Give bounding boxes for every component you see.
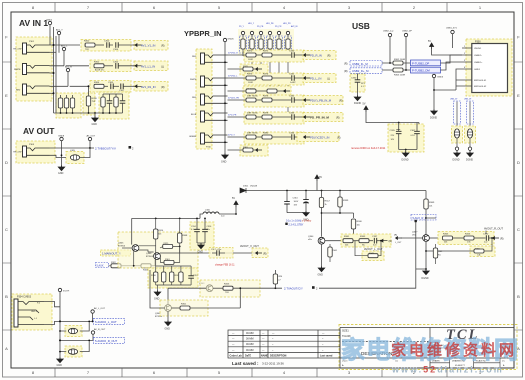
wire q300 base (150, 270, 165, 308)
frame row labels right (517, 35, 520, 352)
resistor R301 feedback (171, 287, 241, 310)
svg-text:GND: GND (154, 298, 160, 301)
highlight group C317 (209, 248, 233, 259)
capacitor C307a (119, 84, 136, 93)
svg-text:R3a7: R3a7 (325, 201, 331, 203)
resistor R313 vertical (70, 95, 74, 113)
svg-text:DGND: DGND (354, 102, 361, 105)
svg-text:PD_PR: PD_PR (275, 26, 282, 28)
wire yp row2 (228, 77, 305, 79)
svg-text:75R: 75R (85, 49, 89, 51)
jack P305 YELLOW (13, 144, 50, 157)
resistor R370 (246, 51, 256, 62)
svg-text:5.PD_Y: 5.PD_Y (228, 135, 236, 137)
jack P307 WHITE (190, 76, 228, 87)
ground q307 (416, 241, 429, 280)
resistor R374 (262, 74, 272, 81)
svg-text:C341: C341 (289, 74, 295, 76)
net label MAINOUT_R (101, 250, 131, 256)
resistor R319 vertical (179, 266, 183, 285)
highlight group P300 (466, 39, 512, 96)
wire row R out (60, 339, 93, 341)
wire tvaout to aux label (319, 221, 416, 288)
transistor Q305 (118, 243, 139, 252)
wire row1 sleeve (50, 51, 57, 53)
capacitor C316 (202, 218, 212, 243)
node rail c308 (286, 190, 288, 192)
ferrite bead L301 vertical (454, 129, 459, 147)
svg-text:GND: GND (58, 172, 64, 175)
wire mnt holes join (434, 89, 456, 91)
pullup column 5 (276, 31, 283, 56)
node AV1_R1 arrow (135, 85, 142, 88)
svg-text:(R): (R) (161, 86, 165, 89)
transistor Q306 (146, 253, 160, 260)
svg-text:C4k: C4k (477, 254, 481, 256)
svg-text:USB2_D-_M: USB2_D-_M (352, 62, 368, 66)
testpoint USB2_DM (383, 31, 393, 64)
power 5V USB (428, 40, 462, 55)
node usb dp tp (405, 69, 407, 71)
ground amp bottom row (154, 285, 161, 301)
svg-text:10k: 10k (357, 225, 360, 227)
watermark url (391, 365, 504, 375)
capacitor C312 vertical (188, 266, 198, 285)
capacitor C343 (289, 113, 295, 120)
connector P304 (14, 296, 44, 328)
svg-text:100R: 100R (248, 59, 253, 61)
net label TUSB2_DP (411, 60, 441, 66)
resistor R316 vertical (151, 260, 158, 286)
testpoint GND3 (432, 74, 444, 111)
testpoint AV_OUT (87, 135, 96, 148)
svg-text:AV IN 1: AV IN 1 (19, 18, 48, 28)
svg-text:C310: C310 (293, 198, 299, 200)
node row2 (53, 72, 55, 74)
node arrow row1 (304, 54, 311, 57)
wire caps bottom rail (287, 212, 306, 214)
jack P302 WHITE (14, 64, 50, 75)
svg-text:(R): (R) (344, 70, 348, 73)
wire row2 tip (50, 65, 90, 67)
svg-text:75R: 75R (92, 101, 96, 103)
svg-text:(R): (R) (389, 240, 393, 243)
svg-text:P301: P301 (29, 41, 35, 43)
svg-text:1N4148: 1N4148 (250, 186, 258, 188)
wire blue rail label (286, 220, 302, 223)
svg-text:C305: C305 (390, 130, 396, 132)
pullup column 2 (249, 31, 256, 56)
svg-text:00-MM: 00-MM (246, 349, 253, 352)
svg-text:USB2_1uz: USB2_1uz (383, 31, 393, 33)
net label TVAOUT (284, 286, 318, 290)
svg-text:USBD1+: USBD1+ (474, 62, 483, 64)
svg-text:5.PD(Y)_PB: 5.PD(Y)_PB (228, 98, 240, 100)
resistor R318 vertical (170, 266, 180, 285)
capacitor C330 (351, 74, 366, 98)
resistor R343b (141, 260, 155, 272)
pullup column 1 (240, 31, 247, 56)
pullup column 4 (267, 31, 274, 56)
usb filter column 1 (450, 99, 461, 127)
testpoint GND2 (46, 20, 53, 46)
svg-text:B: B (517, 294, 520, 299)
svg-text:USBD1-: USBD1- (474, 55, 482, 57)
net label PD_PR_IN (310, 116, 340, 120)
frame column ticks bottom (55, 368, 447, 377)
power 5V lower (363, 103, 420, 123)
svg-text:Q306: Q306 (146, 253, 152, 255)
svg-text:D: D (5, 160, 8, 165)
transistor Q307 (412, 232, 429, 242)
testpoint AV1_R (65, 66, 72, 87)
resistor R360 feedback (426, 237, 493, 256)
wire amp bottom row top join (156, 265, 191, 267)
node bead L306 right (88, 321, 90, 323)
highlight group row3 RC (90, 81, 131, 93)
mid cluster between row2 row3 (228, 86, 292, 97)
svg-text:D301: D301 (243, 186, 249, 188)
wire caps bottom (399, 123, 419, 150)
node arrow row2 (304, 77, 311, 80)
highlight group jacks AVIN1 (16, 37, 52, 101)
ground usbf1 (453, 152, 461, 162)
testpoint usbf2 (468, 147, 471, 153)
node AV1_V1 arrow (135, 44, 142, 47)
jack P303 RED (16, 84, 50, 95)
usb filter column 2 (464, 99, 474, 127)
svg-text:(R): (R) (327, 54, 331, 57)
resistor R361 (160, 246, 179, 264)
node r322 junction (133, 265, 135, 267)
pullup column group labels (239, 23, 298, 28)
mid panel bottom cells (342, 360, 399, 368)
wire avout r label (485, 231, 487, 235)
svg-text:R371: R371 (263, 51, 269, 53)
highlight group row2 label (134, 61, 168, 71)
svg-text:5.AUDIO_L_OUT: 5.AUDIO_L_OUT (95, 320, 117, 324)
wire avout sleeve (50, 155, 67, 157)
svg-text:(R): (R) (336, 116, 340, 119)
capacitor C344 (289, 133, 295, 140)
svg-text:5V: 5V (232, 197, 235, 200)
capacitor C305 (390, 123, 402, 150)
svg-text:R301: R301 (181, 304, 187, 306)
node c316 top (204, 218, 206, 220)
svg-text:GND: GND (318, 274, 324, 277)
svg-text:WHITE: WHITE (190, 79, 197, 81)
highlight group q303 (200, 280, 260, 297)
resistor R377 (246, 113, 259, 120)
ferrite bead L306 (68, 328, 77, 333)
ground usbf2 (466, 152, 473, 162)
node 5v cap join (398, 122, 400, 124)
svg-text:R339: R339 (343, 200, 349, 202)
svg-text:Codes Lab: Codes Lab (230, 355, 243, 358)
svg-text:L305: L305 (70, 150, 76, 152)
svg-text:GND1: GND1 (474, 69, 481, 71)
svg-text:(L): (L) (161, 65, 164, 68)
svg-text:YELLOW: YELLOW (13, 152, 21, 154)
svg-text:(R): (R) (263, 252, 267, 255)
svg-text:USB: USB (352, 21, 370, 31)
net label USB2_D+ (344, 68, 382, 74)
svg-text:R374: R374 (263, 74, 269, 76)
net label stby (285, 220, 312, 227)
node col4 mid (269, 90, 271, 92)
svg-text:24R 75Vdc: 24R 75Vdc (247, 96, 259, 98)
svg-text:10u: 10u (207, 229, 210, 231)
wire yp row4 (228, 116, 305, 118)
node q304 r340 (353, 240, 355, 242)
svg-text:5.PDVD_L: 5.PDVD_L (228, 76, 238, 78)
wire amp bottom row bottom join (156, 284, 191, 286)
node R row (59, 339, 61, 341)
svg-text:C: C (5, 227, 8, 232)
resistor R314 vertical (101, 94, 105, 113)
svg-text:GREEN: GREEN (189, 136, 197, 138)
svg-text:AVOUT_R_OUT: AVOUT_R_OUT (484, 227, 503, 231)
ground P304 (57, 358, 64, 368)
wire bead to node (80, 148, 90, 158)
svg-text:L300: L300 (205, 210, 211, 212)
wire jack R to bus (44, 302, 60, 307)
svg-text:PD_R_IN: PD_R_IN (310, 53, 322, 57)
node col6 row4 (287, 116, 289, 118)
svg-text:Last saved :: Last saved : (232, 361, 259, 366)
highlight group amp left cluster (118, 232, 198, 268)
wire video bus vertical (54, 27, 57, 113)
svg-text:AV_OUT: AV_OUT (87, 135, 96, 138)
svg-text:AVOUT_V_OUT: AVOUT_V_OUT (240, 244, 259, 248)
node AV1_L1 arrow (135, 64, 142, 67)
svg-text:AV_R_OUT: AV_R_OUT (94, 328, 106, 331)
svg-text:SIZE1: SIZE1 (342, 330, 349, 333)
node arrow row5 (304, 136, 311, 139)
ground q300 (165, 311, 172, 330)
wire jack GND to bus (44, 321, 60, 324)
resistor R371 (262, 51, 272, 58)
ground q304 (318, 244, 325, 276)
revision table header row (230, 355, 333, 358)
frame row ticks left (3, 62, 12, 330)
svg-text:RED: RED (16, 90, 21, 92)
highlight group avout jack (16, 141, 55, 163)
jack P308 RED (192, 94, 228, 105)
resistor R312 vertical (64, 95, 68, 113)
right subtable (430, 358, 500, 368)
resistor R322 (109, 262, 142, 268)
capacitor C312 vertical (120, 94, 126, 113)
wire q307 base (401, 237, 423, 239)
size labels (342, 330, 351, 339)
node c314 top (196, 218, 198, 220)
svg-text:AV1_Y: AV1_Y (56, 29, 63, 32)
highlight group C305 C307 (388, 124, 424, 152)
ferrite bead L307 (68, 349, 77, 354)
jack P309 BLUE (191, 111, 228, 122)
node bottom joins (60, 112, 117, 114)
svg-text:USB_DT: USB_DT (464, 99, 472, 101)
node arrow avout r (493, 237, 504, 241)
sub cluster under row1 (228, 64, 269, 75)
svg-text:BT3904: BT3904 (155, 316, 163, 318)
dashed separator (342, 341, 430, 343)
highlight group R306 (83, 93, 95, 115)
svg-text:NAME: NAME (261, 355, 268, 358)
svg-text:RED: RED (192, 97, 197, 99)
capacitor C304 (113, 42, 136, 51)
revision table texts (232, 332, 325, 352)
resistor R343 (359, 236, 373, 246)
svg-text:R306: R306 (92, 98, 98, 100)
svg-text:USB2_DP: USB2_DP (402, 31, 413, 33)
svg-text:家电维修资料网: 家电维修资料网 (391, 341, 517, 359)
svg-text:3-22-2011 19:36: 3-22-2011 19:36 (262, 362, 284, 366)
wire yp row5 (228, 136, 305, 138)
highlight group C330 (350, 74, 365, 92)
resistor R311 vertical (58, 95, 62, 113)
resistor R302 (94, 61, 113, 71)
wire power rail (243, 190, 426, 192)
wire pullup col3 drop (260, 56, 262, 69)
resistor R303 usb (393, 68, 405, 77)
highlight group yp row2 (244, 73, 304, 85)
frame column labels bottom (32, 370, 482, 375)
svg-text:Q305: Q305 (118, 243, 124, 245)
svg-text:PD(Y)C3DY_IN: PD(Y)C3DY_IN (310, 135, 329, 139)
node L row (59, 320, 61, 322)
testpoint USB2_DP (402, 31, 413, 71)
wire dm to pin2 (441, 55, 463, 63)
resistor R300 (84, 41, 104, 51)
capacitor C340 (289, 51, 295, 58)
last saved line (232, 361, 284, 366)
resistor R378 (262, 113, 272, 120)
svg-text:(R): (R) (394, 235, 397, 237)
svg-text:AC5R 47u: AC5R 47u (95, 69, 104, 72)
svg-text:9V: 9V (319, 176, 322, 179)
node bead L307 left (59, 351, 61, 353)
svg-text:AV1_R1_IN: AV1_R1_IN (141, 85, 156, 89)
highlight group P304 jack (12, 294, 52, 330)
svg-text:VBUS1: VBUS1 (474, 48, 482, 50)
svg-text:5.PDVD_R: 5.PDVD_R (228, 53, 238, 55)
resistor R344 vertical (328, 244, 338, 262)
wire top join array B (103, 93, 123, 95)
svg-text:BT3906: BT3906 (118, 246, 126, 248)
svg-text:DGND: DGND (422, 277, 429, 280)
svg-text:C340: C340 (289, 51, 295, 53)
svg-text:BT3904: BT3904 (146, 256, 154, 258)
highlight group avoutl feedback (362, 251, 384, 261)
wire r347 to r340 (322, 212, 354, 214)
svg-text:GND: GND (57, 364, 63, 367)
svg-text:0.1U: 0.1U (411, 135, 416, 137)
resistor R317 vertical (162, 266, 166, 285)
svg-text:GND3: GND3 (437, 77, 444, 79)
svg-text:2.TVAOUT/C/Y: 2.TVAOUT/C/Y (284, 286, 303, 290)
svg-text:WHITE: WHITE (14, 69, 21, 71)
resistor R341 (343, 236, 359, 246)
svg-text:P305: P305 (29, 144, 35, 146)
svg-text:PD_PR_IN_M: PD_PR_IN_M (310, 116, 329, 120)
svg-text:(R): (R) (500, 237, 504, 240)
capacitor C342 (289, 96, 295, 103)
svg-text:E: E (5, 93, 8, 98)
pullup column 6 (285, 31, 292, 56)
resistor R369 vertical (424, 191, 435, 219)
svg-text:GND2: GND2 (46, 20, 53, 22)
resistor R347 vertical (319, 191, 330, 237)
svg-text:RED: RED (192, 56, 197, 58)
svg-text:1u/NP: 1u/NP (290, 82, 296, 84)
svg-text:AV2_IN: AV2_IN (291, 25, 298, 28)
transistor Q304 (308, 236, 325, 244)
net label PD_R_IN (310, 53, 331, 57)
resistor R375 (246, 96, 259, 103)
capacitor C317 polarized (211, 249, 225, 256)
revision table (228, 330, 340, 358)
svg-text:24R 75Vdc: 24R 75Vdc (247, 133, 259, 135)
highlight group yp row4 (244, 112, 304, 124)
svg-text:AV OUT: AV OUT (23, 126, 55, 136)
resistor R376 (262, 96, 272, 103)
highlight group resistor array B (99, 92, 129, 119)
svg-text:C343: C343 (289, 113, 295, 115)
svg-text:R348: R348 (182, 235, 188, 237)
svg-text:24R 75Vdc: 24R 75Vdc (247, 113, 259, 115)
company info text (427, 341, 449, 356)
power 5V rail feed (232, 197, 238, 214)
testpoint AV_R_OUT (91, 328, 106, 340)
svg-text:GND8: GND8 (58, 136, 65, 138)
svg-text:R302: R302 (94, 61, 100, 63)
inductor L300 (200, 210, 236, 219)
testpoint GND6 (223, 38, 234, 41)
testpoint GND8 (58, 136, 65, 168)
svg-text:change FEB 16 11: change FEB 16 11 (215, 264, 235, 267)
highlight group row3 label (134, 82, 168, 92)
svg-text:5.AUX_R_Z: 5.AUX_R_Z (413, 216, 427, 220)
svg-text:100V: 100V (294, 201, 299, 203)
svg-text:Last saved: Last saved (320, 355, 333, 358)
capacitor C302 (113, 61, 136, 68)
highlight group q300 (160, 300, 208, 316)
svg-text:PD(Y)_PB_IN_M: PD(Y)_PB_IN_M (310, 98, 332, 102)
wire pullup col2 drop (251, 56, 253, 78)
wire row3 sleeve (50, 92, 54, 94)
highlight group yp row1 (244, 50, 304, 62)
net label USB2_D- (344, 61, 382, 67)
wire yp row1 (228, 54, 305, 56)
svg-text:GND: GND (165, 328, 171, 331)
highlight group yp row4 label (303, 113, 343, 122)
highlight group row1 label (134, 41, 168, 51)
highlight group avoutr feedback (470, 246, 495, 257)
svg-text:C344: C344 (289, 133, 295, 135)
svg-text:R380: R380 (263, 133, 269, 135)
svg-text:C330: C330 (351, 78, 357, 80)
highlight group yp row5 (244, 132, 304, 144)
svg-text:R304: R304 (94, 82, 100, 84)
transistor Q300 (155, 305, 171, 318)
capacitor C338 (483, 234, 493, 244)
highlight group pullup columns (238, 29, 294, 55)
ferrite bead L302 vertical (467, 129, 472, 147)
wire row1 tip (50, 44, 81, 46)
svg-text:5.AUX: 5.AUX (97, 265, 104, 268)
